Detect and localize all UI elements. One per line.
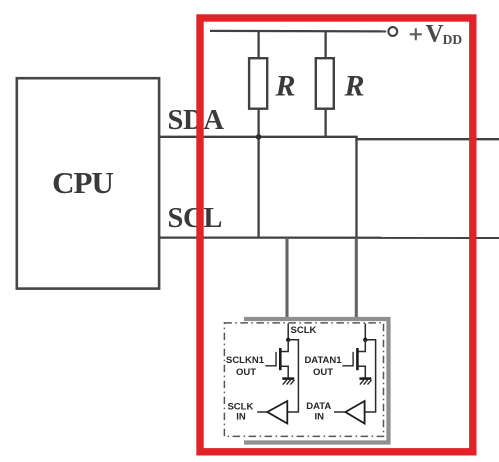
svg-text:DATA: DATA: [306, 401, 331, 412]
node R1-SDA crossing: [256, 134, 262, 140]
svg-text:OUT: OUT: [313, 367, 333, 378]
wire SDA down to module: [355, 137, 357, 238]
wire R2 to SDA: [324, 109, 326, 137]
module background: [221, 322, 386, 439]
wire rail to R2: [324, 31, 326, 58]
svg-text:SCLK: SCLK: [291, 325, 317, 336]
wire R1 to SCL: [257, 109, 259, 238]
transistor Q2 gate bar: [352, 352, 354, 367]
buffer A1 SCLK IN: [267, 401, 287, 424]
wire buffer A2 output: [334, 411, 345, 413]
svg-text:R: R: [344, 70, 365, 103]
svg-text:OUT: OUT: [236, 367, 256, 378]
svg-text:IN: IN: [314, 412, 324, 423]
wire module SCLK entry: [287, 324, 289, 340]
wire cable SDA to module: [355, 238, 358, 320]
transistor Q1 gate bar: [275, 352, 277, 367]
wire SCLK node to buffer input: [288, 340, 299, 412]
module frame shadow: [244, 319, 389, 443]
svg-text:R: R: [275, 70, 296, 103]
wire module DATA entry: [364, 324, 366, 340]
transistor Q1 gate lead: [265, 365, 276, 367]
wire SCL: [159, 236, 499, 238]
svg-text:V: V: [426, 21, 444, 48]
transistor Q1 source lead: [280, 366, 288, 377]
svg-text:SCL: SCL: [168, 203, 223, 234]
module dash-dot border: [224, 323, 383, 437]
wire VDD rail: [210, 30, 386, 33]
ground GND2: [359, 379, 371, 385]
svg-text:SDA: SDA: [168, 105, 225, 136]
transistor Q2 gate lead: [342, 365, 353, 367]
transistor Q2 channel bar: [356, 348, 359, 370]
svg-text:SCLKN1: SCLKN1: [226, 355, 265, 366]
buffer A2 DATA IN: [345, 401, 364, 424]
wire rail to R1: [257, 31, 259, 58]
transistor Q1 channel bar: [279, 348, 282, 370]
wire SDA: [159, 137, 499, 139]
svg-text:DD: DD: [443, 32, 463, 47]
svg-text:DATAN1: DATAN1: [304, 355, 342, 366]
wire cable SCL to module: [285, 238, 288, 320]
node DATA drain: [363, 338, 367, 342]
label +VDD: [410, 28, 422, 40]
svg-text:IN: IN: [236, 412, 246, 423]
highlight box (red): [200, 18, 473, 452]
transistor Q2 source lead: [357, 366, 365, 377]
node SCLK drain: [286, 338, 290, 342]
transistor Q1 SCLKN1 drain lead: [280, 340, 288, 352]
resistor R1: [249, 58, 267, 108]
CPU box U1: [17, 78, 159, 288]
resistor R2: [316, 58, 334, 108]
ground GND1: [282, 379, 294, 385]
wire buffer A1 output: [257, 411, 267, 413]
terminal VDD: [388, 27, 397, 36]
svg-text:CPU: CPU: [52, 165, 113, 200]
wire DATA node to buffer input: [365, 340, 376, 412]
transistor Q2 DATAN1 drain lead: [357, 340, 365, 352]
